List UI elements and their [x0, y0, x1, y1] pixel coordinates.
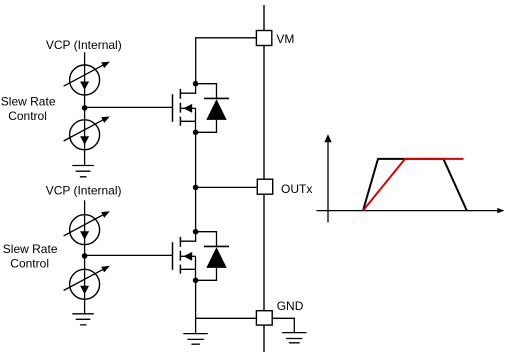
svg-text:Slew Rate: Slew Rate [3, 242, 58, 256]
svg-text:GND: GND [277, 299, 304, 313]
svg-text:VM: VM [276, 32, 294, 46]
svg-text:Control: Control [8, 109, 47, 123]
svg-text:OUTx: OUTx [281, 182, 312, 196]
svg-text:Slew Rate: Slew Rate [1, 94, 56, 108]
svg-text:VCP (Internal): VCP (Internal) [46, 184, 122, 198]
svg-text:Control: Control [10, 256, 49, 270]
svg-text:VCP (Internal): VCP (Internal) [46, 38, 122, 52]
